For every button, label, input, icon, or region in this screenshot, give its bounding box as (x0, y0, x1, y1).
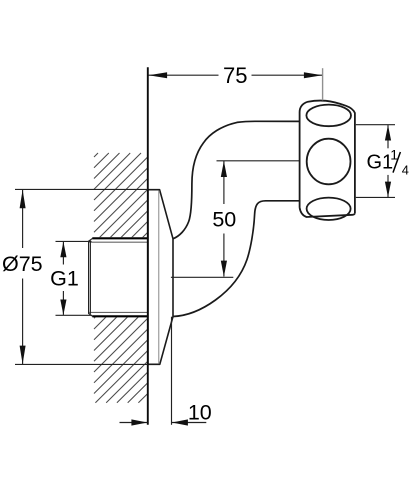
union nut bottom grip recess (307, 198, 351, 220)
dim 75 left arrow (149, 72, 168, 78)
union nut outline (300, 101, 326, 208)
wall hatching (94, 153, 148, 403)
union nut middle grip recess (307, 139, 351, 185)
dim O75 up arrow (20, 190, 26, 209)
dim G1 bottom extension line (56, 314, 92, 316)
dim 75 right arrow (304, 72, 323, 78)
svg-text:4: 4 (402, 163, 409, 178)
dim 50 bottom extension line (171, 276, 233, 278)
dim O75 top extension line (15, 188, 148, 190)
dim 10 right extension line (171, 317, 173, 425)
dim O75 line (22, 190, 24, 248)
dim G1 1/4 top extension line (356, 124, 395, 126)
svg-text:G1: G1 (50, 266, 79, 290)
flange shading line (158, 191, 160, 364)
dim 10 left-pointing arrow (172, 419, 188, 425)
dim O75 bottom extension line (15, 363, 148, 365)
dim G1 down arrow (60, 300, 66, 316)
dim 10 left tail line (120, 422, 148, 424)
svg-text:75: 75 (223, 63, 247, 88)
svg-text:10: 10 (188, 401, 212, 425)
wall flange escutcheon (148, 190, 173, 365)
pipe upper edge curve (173, 121, 300, 239)
dim G1 1/4 line (387, 125, 389, 148)
thread root bottom line (89, 311, 148, 313)
dim 75 line (149, 74, 219, 76)
union nut top grip recess (306, 105, 351, 127)
dim 50 down arrow (221, 261, 227, 277)
svg-text:Ø75: Ø75 (2, 252, 43, 276)
thread end cap (89, 238, 93, 316)
dim 50 line (223, 161, 225, 204)
dim 75 extension line (gray, right) (322, 68, 324, 100)
dim 50 up arrow (221, 161, 227, 177)
dim 10 right tail line (172, 422, 206, 424)
dim G1 up arrow (60, 242, 66, 258)
pipe lower edge curve (173, 201, 300, 317)
dim G1 1/4 bottom extension line (356, 196, 395, 198)
thread root top line (89, 241, 148, 243)
svg-text:50: 50 (212, 208, 236, 232)
wall surface line (147, 67, 149, 425)
dim G1 1/4 down arrow (385, 182, 391, 198)
dim G1 top extension line (56, 240, 92, 242)
threaded pipe G1 body (88, 237, 147, 317)
dim 10 right-pointing arrow (131, 419, 147, 425)
thread crest top line (92, 237, 148, 239)
thread crest bottom line (92, 315, 148, 317)
dim G1 line (62, 242, 64, 265)
dim O75 down arrow (20, 346, 26, 365)
dim G1 1/4 up arrow (385, 125, 391, 141)
svg-text:G1: G1 (367, 151, 394, 173)
union nut G1 1/4 body (300, 101, 355, 217)
dim 50 top extension line (217, 160, 300, 162)
